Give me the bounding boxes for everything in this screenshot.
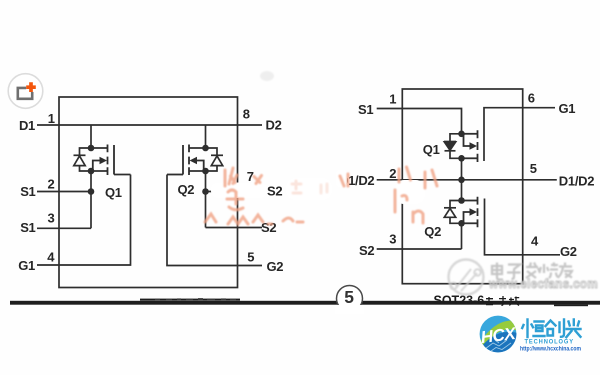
glyph 友	[558, 263, 572, 278]
svg-text:S2: S2	[267, 184, 282, 199]
glyph 恒	[522, 320, 533, 338]
svg-text:Q2: Q2	[178, 182, 195, 197]
diode D-Q1r body diode (cathode down)	[444, 134, 462, 159]
svg-text:2: 2	[48, 177, 55, 192]
wire pin7 S2	[206, 191, 263, 193]
svg-text:3: 3	[389, 232, 396, 247]
wire Q2r source to pin3	[461, 223, 463, 249]
node Q1r source dot	[458, 131, 465, 138]
icon add-image (top-left)	[8, 74, 43, 109]
transistor Q2r arrow	[470, 208, 478, 216]
glyph 装	[509, 297, 520, 306]
transistor Q1r arrow	[470, 142, 478, 150]
svg-text:1: 1	[389, 92, 396, 107]
wire pin6 S2	[206, 227, 263, 229]
transistor Q2 (right pkg, drain top)	[462, 197, 478, 227]
node Q2 drain dot	[202, 145, 209, 152]
wire pin3 S2	[377, 248, 462, 250]
wire Q2 drain	[205, 125, 207, 148]
transistor Q2 (left pkg)	[167, 145, 206, 176]
node Q2r source dot	[458, 220, 465, 227]
svg-text:www.elecfans.com: www.elecfans.com	[488, 277, 598, 291]
wire pin3 S1	[37, 227, 91, 229]
left package SO-8 outline	[59, 97, 238, 288]
scan smudge	[260, 71, 274, 81]
labels left package	[18, 107, 283, 274]
svg-text:1: 1	[48, 111, 55, 126]
black separator bar	[10, 299, 600, 307]
svg-text:5: 5	[344, 287, 354, 307]
node pin2 junction dot	[88, 188, 95, 195]
svg-text:5: 5	[247, 250, 254, 265]
labels right package	[339, 90, 594, 259]
glyph 电	[492, 263, 503, 280]
transistor Q2 arrow	[190, 157, 198, 165]
node Q1 source dot	[88, 168, 95, 175]
svg-text:3: 3	[48, 211, 55, 226]
glyph 烧	[540, 263, 560, 279]
svg-text:5: 5	[530, 161, 537, 176]
svg-text:D1/D2: D1/D2	[559, 174, 594, 189]
svg-text:D2: D2	[266, 118, 282, 133]
white-out below bar at circled 5	[335, 305, 364, 314]
diode D-Q1 body diode	[74, 148, 92, 171]
svg-text:G1: G1	[18, 258, 35, 273]
glyph 封	[486, 296, 506, 305]
glyph 创	[546, 321, 556, 336]
svg-text:TECHNOLOGY: TECHNOLOGY	[525, 339, 575, 346]
diode D-Q2 body diode	[206, 148, 224, 171]
svg-text:SOT23-6: SOT23-6	[434, 294, 485, 308]
svg-text:G2: G2	[267, 259, 284, 274]
logo text 恒创兴	[522, 320, 580, 338]
svg-text:http://www.hcxchina.com: http://www.hcxchina.com	[520, 346, 581, 353]
node Q2r drain dot	[458, 197, 465, 204]
watermark red text fragments	[205, 167, 437, 224]
svg-text:Q1: Q1	[105, 185, 122, 200]
wire Q1 drain	[90, 125, 92, 148]
svg-text:G2: G2	[560, 244, 577, 259]
node Q1r drain dot	[458, 155, 465, 162]
wire pin5 G2	[167, 175, 262, 266]
svg-text:2: 2	[389, 166, 396, 181]
caption fragments under left package (SO-8)	[155, 298, 236, 300]
svg-text:D1: D1	[19, 118, 35, 133]
svg-text:4: 4	[47, 250, 55, 265]
node D1/D2 bus junction dot	[458, 177, 465, 184]
svg-text:S2: S2	[359, 243, 374, 258]
node Q1 drain dot	[88, 145, 95, 152]
svg-text:G1: G1	[559, 101, 576, 116]
wire pin4 G2	[485, 199, 561, 255]
white correction blob over pin7 wire	[211, 170, 425, 204]
transistor Q1 (right pkg, source top)	[462, 130, 478, 162]
svg-text:S1: S1	[358, 102, 373, 117]
wire pin1-pin8 drain bus D1-D2	[37, 124, 262, 126]
transistor Q1 arrow	[100, 157, 108, 165]
glyph 兴	[566, 320, 580, 338]
caption SOT23-6 封装	[434, 294, 521, 308]
node Q2 source dot	[202, 168, 209, 175]
wire pin4 G1	[37, 175, 131, 266]
glyph 子	[507, 265, 521, 280]
wire Q1r drain to bus	[461, 158, 463, 200]
glyph 发	[526, 263, 540, 279]
svg-text:Q1: Q1	[423, 142, 440, 157]
svg-text:S1: S1	[20, 220, 35, 235]
svg-text:Q2: Q2	[424, 224, 441, 239]
svg-text:6: 6	[528, 90, 535, 105]
svg-text:8: 8	[243, 107, 250, 122]
diode D-Q2r body diode (cathode up)	[444, 201, 462, 224]
right package SOT23-6 outline	[377, 89, 560, 284]
wire Q2 source to pins 7,6	[205, 171, 207, 228]
svg-text:S1: S1	[20, 184, 35, 199]
watermark 电子发烧友 outline glyphs	[492, 263, 572, 280]
node pin7 junction dot	[202, 188, 209, 195]
transistor Q1 (left pkg)	[91, 145, 131, 176]
svg-text:4: 4	[531, 234, 539, 249]
wire pin1 S1	[377, 109, 462, 134]
wire pin6 G1	[484, 108, 555, 161]
wire pin2 S1	[37, 191, 91, 193]
circled number 5	[337, 286, 363, 312]
logo HCX circle	[477, 315, 521, 356]
watermark elecfans dandelion circle	[449, 260, 484, 295]
wire Q1 source to pins 2,3	[90, 171, 92, 228]
wire pin2-pin5 D1/D2 bus	[377, 179, 557, 181]
